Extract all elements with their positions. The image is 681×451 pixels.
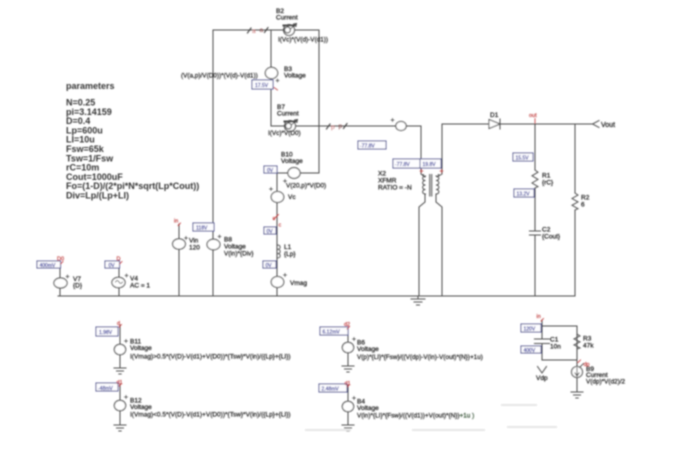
node in (aux) xyxy=(537,314,544,321)
wire B10 row xyxy=(277,172,319,174)
svg-text:0V: 0V xyxy=(267,168,274,174)
node p flags xyxy=(327,123,348,131)
vbox 400mV (V7) xyxy=(37,261,61,268)
wire transformer left leg xyxy=(419,194,425,296)
COMPONENT NAME / VALUE TEXTS xyxy=(73,8,626,420)
label B6 xyxy=(357,340,379,354)
voltage source V4 (sine) xyxy=(112,274,128,288)
wire transformer secondary rise xyxy=(437,124,442,177)
vbox 120V (C1 top) xyxy=(521,324,541,332)
svg-text:-48mV: -48mV xyxy=(98,386,113,392)
ground main (transformer) xyxy=(411,296,425,305)
svg-text:{rC}: {rC} xyxy=(542,180,554,187)
inductor L1 xyxy=(278,245,281,258)
label R1 xyxy=(542,173,554,187)
svg-text:10n: 10n xyxy=(550,344,561,351)
voltage source B3 xyxy=(265,67,279,82)
resistor R1 xyxy=(532,170,538,188)
svg-text:47k: 47k xyxy=(583,343,594,350)
vbox 0V (B10) xyxy=(264,166,277,173)
svg-text:Div=Lp/(Lp+LI): Div=Lp/(Lp+LI) xyxy=(66,191,129,201)
svg-text:p: p xyxy=(339,123,343,130)
svg-text:0V: 0V xyxy=(109,263,116,269)
node d1 (B4) xyxy=(345,381,351,387)
svg-text:400mV: 400mV xyxy=(40,263,57,269)
label C1 xyxy=(550,337,561,351)
svg-text:I(Vc)*V(D0): I(Vc)*V(D0) xyxy=(268,130,301,137)
wire B7 row p xyxy=(271,125,421,127)
svg-text:R2: R2 xyxy=(581,195,590,202)
vbox 118V (B8) xyxy=(193,223,214,231)
ground B11 xyxy=(114,368,126,374)
svg-text:I(Vmag)>0.5*(V(D)-V(d1)+V(D0)): I(Vmag)>0.5*(V(D)-V(d1)+V(D0))*{Tsw}*V(i… xyxy=(130,354,291,361)
svg-text:Voltage: Voltage xyxy=(357,346,379,353)
GROUNDS xyxy=(114,296,583,431)
node in (Vin) xyxy=(174,219,181,226)
svg-text:{Cout}: {Cout} xyxy=(542,234,561,241)
node d1 (B12) xyxy=(117,380,123,386)
label R2 xyxy=(581,195,590,209)
svg-text:parameters: parameters xyxy=(66,81,115,91)
svg-text:a: a xyxy=(260,27,264,34)
node D xyxy=(117,257,123,265)
voltage source B11 xyxy=(114,340,127,355)
vbox -77.8V (sense) xyxy=(358,141,386,149)
svg-text:Current: Current xyxy=(277,111,299,118)
svg-text:-77.8V: -77.8V xyxy=(395,162,410,168)
ground B9 xyxy=(571,392,583,398)
label B9 xyxy=(586,366,626,386)
svg-text:0V: 0V xyxy=(267,229,274,235)
wire right column xyxy=(318,30,320,173)
node D0 xyxy=(57,257,64,265)
svg-text:V(in)*{Div}: V(in)*{Div} xyxy=(224,251,254,258)
vbox 2.48mV (B4) xyxy=(319,384,347,392)
VOLTAGE ANNOTATION BOXES xyxy=(37,80,541,392)
label B2 xyxy=(276,8,298,22)
label Vin xyxy=(189,238,200,252)
voltage source Vc xyxy=(270,188,284,203)
vbox 19.8V (X2 secondary) xyxy=(420,159,441,168)
svg-text:17.5V: 17.5V xyxy=(255,83,269,89)
wire bottom rail xyxy=(58,295,575,297)
svg-text:120: 120 xyxy=(189,245,200,252)
vbox 400V (C1 bottom) xyxy=(521,346,541,353)
PASSIVES xyxy=(278,119,581,349)
label B3 xyxy=(284,66,306,80)
svg-text:0V: 0V xyxy=(266,263,273,269)
label B11 xyxy=(130,339,152,353)
voltage source B12 xyxy=(114,396,127,411)
svg-text:{D}: {D} xyxy=(73,283,83,290)
svg-text:p: p xyxy=(331,124,335,131)
label X2 xyxy=(378,171,412,192)
svg-text:400V: 400V xyxy=(524,348,536,354)
vbox 0V (below L1) xyxy=(263,261,276,268)
voltage source V7 xyxy=(54,275,69,288)
node dp xyxy=(578,360,590,368)
wire top rail a xyxy=(213,29,319,31)
svg-text:1.98V: 1.98V xyxy=(99,330,113,336)
label B10 xyxy=(281,152,303,166)
svg-text:V(in)*{LI}*{Fsw}/((V(d1))+V(ou: V(in)*{LI}*{Fsw}/((V(d1))+V(out)*{N})+1u… xyxy=(357,413,474,420)
voltage source B4 xyxy=(342,397,355,412)
svg-text:Voltage: Voltage xyxy=(130,345,152,352)
svg-text:Current: Current xyxy=(276,15,298,22)
ground B4 xyxy=(342,425,354,431)
label V7 xyxy=(73,276,83,290)
svg-text:R1: R1 xyxy=(542,173,551,180)
vbox 1.98V (B11) xyxy=(96,327,118,336)
X2 primary polarity mark xyxy=(420,170,423,173)
wire V7 column xyxy=(59,261,61,296)
svg-text:118V: 118V xyxy=(196,226,208,232)
vbox 6.12mV (B6) xyxy=(320,327,348,335)
svg-text:V(20,p)*V(D0): V(20,p)*V(D0) xyxy=(286,183,326,190)
svg-text:Voltage: Voltage xyxy=(357,405,379,412)
voltage source Vmag xyxy=(271,274,286,288)
svg-text:120V: 120V xyxy=(524,327,536,333)
RED NET LABELS xyxy=(57,27,590,387)
resistor R3 xyxy=(574,334,580,349)
svg-text:D: D xyxy=(117,257,121,263)
node a flags xyxy=(248,27,269,35)
svg-text:in: in xyxy=(537,314,541,320)
svg-text:Voltage: Voltage xyxy=(284,73,306,80)
svg-text:V(dp)*V(d2)/2: V(dp)*V(d2)/2 xyxy=(586,379,626,386)
label B7 xyxy=(277,104,299,118)
label C2 xyxy=(542,227,561,241)
svg-text:15.5V: 15.5V xyxy=(516,156,530,162)
wire aux block top xyxy=(542,320,577,392)
svg-text:13.2V: 13.2V xyxy=(517,192,531,198)
svg-text:RATIO = -N: RATIO = -N xyxy=(378,185,412,192)
resistor R2 xyxy=(572,193,578,210)
node a mark under B3 box xyxy=(274,88,278,91)
label V4 xyxy=(130,276,150,290)
wire transformer right leg xyxy=(436,194,442,296)
capacitor C1 xyxy=(535,339,550,344)
faint print ghosts xyxy=(306,405,556,430)
label B4 xyxy=(357,399,379,413)
node d (B11) xyxy=(117,321,122,327)
svg-text:19.8V: 19.8V xyxy=(423,162,437,168)
svg-text:Voltage: Voltage xyxy=(281,158,303,165)
X2 secondary polarity mark xyxy=(440,170,443,173)
current source B7 xyxy=(285,120,298,132)
wire Vin column xyxy=(178,224,180,296)
voltage source B10 xyxy=(284,168,301,183)
svg-text:B8: B8 xyxy=(224,237,232,244)
voltage source B8 xyxy=(207,235,221,250)
svg-text:in: in xyxy=(174,219,178,225)
ground B12 xyxy=(114,425,126,431)
diode D1 xyxy=(489,119,500,129)
wire transformer primary drop xyxy=(421,126,425,177)
vbox 13.2V (below R1) xyxy=(514,189,534,197)
wire B4 stub xyxy=(347,385,349,424)
label B12 xyxy=(130,398,152,412)
vbox -77.8V (X2 primary) xyxy=(393,159,420,168)
capacitor C2 xyxy=(530,188,541,240)
svg-text:X2: X2 xyxy=(378,171,386,178)
vbox 0V (above L1) xyxy=(264,227,276,234)
parameters text block xyxy=(66,81,199,201)
current source B2 xyxy=(284,24,297,36)
svg-text:Vdp: Vdp xyxy=(536,375,548,382)
svg-text:V4: V4 xyxy=(130,276,138,283)
label L1 xyxy=(284,244,296,258)
label R3 xyxy=(583,336,594,350)
wire B11 stub xyxy=(119,325,121,367)
svg-text:Vc: Vc xyxy=(288,194,296,201)
wire top right rail xyxy=(442,123,592,125)
svg-text:6: 6 xyxy=(581,202,585,209)
svg-text:2.48mV: 2.48mV xyxy=(322,387,340,393)
wire Vc L1 Vmag column xyxy=(276,173,278,296)
svg-text:Vout: Vout xyxy=(601,122,615,129)
svg-text:c: c xyxy=(273,216,276,222)
transformer X2 xyxy=(422,174,439,196)
node d2 (B6) xyxy=(344,322,350,329)
label B8 xyxy=(224,237,254,258)
voltage source Vin xyxy=(173,237,188,250)
svg-text:Vin: Vin xyxy=(189,238,199,245)
svg-text:L1: L1 xyxy=(284,244,292,251)
svg-text:out: out xyxy=(529,113,537,119)
node c flags xyxy=(273,215,282,229)
wire B12 stub xyxy=(119,384,121,424)
wire left column xyxy=(212,30,214,296)
net flag Vdp xyxy=(538,367,547,374)
vbox 15.5V (above R1) xyxy=(513,153,533,161)
svg-text:V(p)*{LI}*{Fsw}/((V(dp)-V(in)-: V(p)*{LI}*{Fsw}/((V(dp)-V(in)-V(out)*{N}… xyxy=(357,354,483,361)
svg-text:c: c xyxy=(279,223,282,229)
svg-text:R3: R3 xyxy=(583,336,592,343)
svg-text:a: a xyxy=(252,28,256,35)
svg-text:{Lp}: {Lp} xyxy=(284,251,296,258)
SOURCES xyxy=(54,24,584,412)
voltage source sense (unnamed, near X2) xyxy=(391,119,406,131)
vbox 0V (V4) xyxy=(105,261,120,268)
node out xyxy=(529,113,537,123)
svg-text:-77.8V: -77.8V xyxy=(360,144,375,150)
svg-text:AC = 1: AC = 1 xyxy=(130,283,150,290)
vbox 17.5V (node a) xyxy=(252,80,273,89)
svg-text:D1: D1 xyxy=(490,112,499,119)
wire V4 column xyxy=(118,260,120,296)
vbox -48mV (B12) xyxy=(96,383,118,391)
svg-text:I(Vmag)<0.5*(V(D)-V(d1)+V(D0)): I(Vmag)<0.5*(V(D)-V(d1)+V(D0))*{Tsw}*V(i… xyxy=(130,412,291,419)
wire B6 stub xyxy=(347,327,349,366)
current source B9 xyxy=(572,364,584,378)
net flag Vout xyxy=(593,121,600,128)
voltage source B6 xyxy=(342,338,355,353)
svg-text:Voltage: Voltage xyxy=(130,404,152,411)
svg-text:(V(a,p)/V(D0))*(V(d)-V(d1)): (V(a,p)/V(D0))*(V(d)-V(d1)) xyxy=(181,73,258,80)
ground B6 xyxy=(342,366,354,372)
svg-text:C1: C1 xyxy=(550,337,559,344)
svg-text:6.12mV: 6.12mV xyxy=(323,330,341,336)
svg-text:Voltage: Voltage xyxy=(224,244,246,251)
wire B3 column xyxy=(270,30,272,126)
wire R2 column xyxy=(574,124,576,296)
wire out column xyxy=(534,124,536,296)
svg-text:XFMR: XFMR xyxy=(378,178,397,185)
svg-text:C2: C2 xyxy=(542,227,551,234)
svg-text:Vmag: Vmag xyxy=(290,280,307,287)
svg-text:I(Vc)*(V(d)-V(d1)): I(Vc)*(V(d)-V(d1)) xyxy=(278,37,328,44)
